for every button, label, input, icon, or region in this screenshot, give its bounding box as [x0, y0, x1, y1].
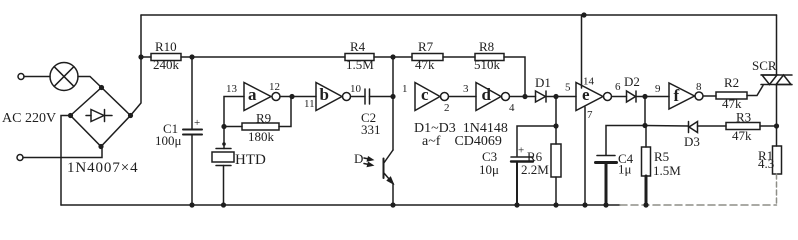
svg-text:12: 12 [269, 81, 280, 93]
wire R10 to R4 [192, 56, 345, 58]
piezo sounder HTD [223, 127, 225, 149]
node junction D2 / f input / R5 [642, 94, 647, 99]
wire a output to b input [280, 96, 316, 98]
wire f input [645, 96, 669, 98]
wire e output to D2 [612, 96, 627, 98]
capacitor C2 331 [351, 96, 366, 98]
svg-text:c: c [421, 85, 429, 104]
wire bridge left corner to bottom rail [61, 116, 71, 206]
diode D1 [536, 91, 546, 102]
svg-text:510k: 510k [474, 57, 501, 72]
svg-text:e: e [582, 85, 590, 104]
wire d output [510, 96, 536, 98]
node junction R10 left [138, 54, 143, 59]
wire e input [556, 96, 576, 98]
svg-text:+: + [194, 117, 200, 129]
node junction top rail x584 [581, 12, 586, 17]
node junction R10 right / C1 [189, 54, 194, 59]
wire pin14 vertical from top rail to inverter e [581, 15, 583, 88]
diode D3 [688, 122, 690, 133]
svg-text:7: 7 [587, 109, 593, 121]
wire left vertical from top rail to bridge [131, 15, 142, 116]
wire bottom rail [61, 204, 620, 206]
node junction D1 / e input / R6 [553, 94, 558, 99]
svg-text:1N4007×4: 1N4007×4 [67, 160, 139, 176]
svg-text:HTD: HTD [235, 152, 266, 168]
wire to C3 [517, 126, 556, 156]
inverter c [415, 83, 440, 111]
wire a input [224, 97, 244, 127]
resistor R2 47k [703, 95, 716, 97]
resistor R8 510k [475, 54, 504, 61]
wire terminal to lamp [24, 76, 50, 78]
wire pin7 to bottom rail [584, 107, 586, 205]
svg-text:1μ: 1μ [618, 162, 632, 177]
svg-text:R10: R10 [155, 39, 177, 54]
svg-text:R4: R4 [350, 39, 366, 54]
node junction R3 / R1 [774, 123, 779, 128]
node junction R9 left / HTD [221, 124, 226, 129]
inverter b [316, 83, 342, 111]
svg-text:R5: R5 [654, 149, 669, 164]
wire vertical D1 junction down [555, 97, 557, 127]
svg-text:a: a [248, 85, 257, 104]
wire right vertical from top rail to SCR [776, 15, 778, 75]
inverter e [576, 83, 603, 111]
resistor R5 1.5M [645, 126, 647, 148]
svg-text:a~f CD4069: a~f CD4069 [422, 134, 502, 149]
resistor R1 4.3 [776, 126, 778, 146]
svg-text:47k: 47k [732, 128, 752, 143]
svg-text:R3: R3 [736, 110, 751, 125]
svg-text:1.5M: 1.5M [653, 163, 681, 178]
svg-text:AC 220V: AC 220V [2, 111, 56, 126]
svg-text:180k: 180k [248, 129, 275, 144]
svg-text:f: f [674, 86, 680, 105]
svg-text:b: b [320, 85, 329, 104]
inverter f [669, 83, 695, 109]
svg-text:D1: D1 [535, 75, 551, 90]
node junction c input [390, 94, 395, 99]
svg-text:3: 3 [463, 83, 469, 95]
inverter a [244, 83, 271, 111]
svg-text:D: D [354, 151, 363, 166]
wire triac to R3 junction [776, 85, 778, 127]
svg-text:2.2M: 2.2M [521, 162, 549, 177]
lamp (indicator) [50, 63, 78, 91]
phototransistor D [392, 97, 394, 151]
svg-text:D2: D2 [624, 74, 640, 89]
capacitor C4 1u [597, 155, 615, 157]
svg-text:R2: R2 [724, 75, 739, 90]
resistor R10 240k [141, 56, 151, 58]
resistor R9 180k [224, 126, 242, 128]
diode D2 [627, 91, 636, 102]
svg-text:8: 8 [696, 81, 702, 93]
capacitor C1 100u [191, 57, 193, 129]
terminal upper AC input [18, 74, 24, 80]
svg-text:4: 4 [509, 102, 515, 114]
svg-text:10: 10 [350, 83, 362, 95]
resistor R4 1.5M [345, 54, 374, 61]
svg-text:2: 2 [444, 102, 450, 114]
wire junction to D3 [645, 125, 689, 128]
svg-text:9: 9 [655, 83, 661, 95]
wire top rail [141, 14, 777, 16]
resistor R3 47k [726, 123, 760, 130]
svg-text:10μ: 10μ [479, 162, 499, 177]
svg-text:R9: R9 [256, 111, 271, 126]
svg-text:5: 5 [565, 82, 571, 94]
svg-text:13: 13 [226, 83, 238, 95]
svg-text:d: d [482, 85, 492, 104]
terminal lower AC input [17, 155, 23, 161]
wire lower terminal to bridge bottom corner [23, 148, 102, 158]
svg-text:6: 6 [615, 81, 621, 93]
svg-text:47k: 47k [415, 57, 435, 72]
svg-text:+: + [518, 145, 524, 157]
resistor R7 47k [393, 56, 412, 58]
svg-text:R8: R8 [479, 39, 494, 54]
wire vertical D2 junction down [644, 97, 646, 126]
svg-text:11: 11 [304, 98, 315, 110]
svg-text:331: 331 [361, 122, 381, 137]
resistor R6 2.2M [555, 126, 557, 144]
svg-text:1.5M: 1.5M [346, 57, 374, 72]
wire lamp to bridge top corner [78, 77, 102, 88]
wire c to d [449, 96, 477, 98]
svg-text:4.3: 4.3 [758, 156, 774, 171]
svg-text:100μ: 100μ [155, 133, 182, 148]
svg-text:14: 14 [583, 76, 595, 88]
svg-text:1: 1 [402, 83, 408, 95]
svg-text:SCR: SCR [752, 58, 777, 73]
wire vertical R4 junction down to c input [392, 57, 394, 97]
wire to C4 [606, 126, 645, 156]
svg-text:D3: D3 [684, 134, 700, 149]
bridge rectifier 1N4007x4 [71, 88, 131, 147]
svg-text:R7: R7 [418, 39, 434, 54]
svg-text:240k: 240k [153, 57, 180, 72]
node junction R4/R7 [390, 54, 395, 59]
inverter d [476, 83, 501, 111]
